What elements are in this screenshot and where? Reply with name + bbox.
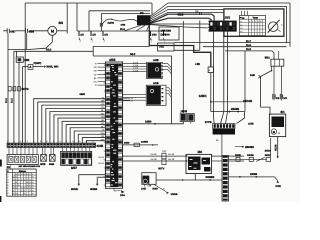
svg-text:D5/2B: D5/2B [98,162,104,165]
svg-text:A/3E: A/3E [248,122,254,125]
svg-text:31.0: 31.0 [120,28,126,31]
svg-text:31.7: 31.7 [246,40,252,43]
svg-text:12B/1: 12B/1 [199,94,207,98]
svg-text:D/7B: D/7B [276,185,282,188]
svg-text:0.5SB: 0.5SB [133,61,139,64]
svg-text:VD: VD [94,73,97,76]
svg-text:Tstat: Tstat [253,16,259,19]
svg-text:17/7B: 17/7B [205,121,212,124]
svg-text:5B/8: 5B/8 [80,93,86,96]
svg-text:1/3DB: 1/3DB [171,193,178,196]
svg-text:24/3C: 24/3C [265,149,272,152]
svg-text:GR: GR [101,103,105,106]
svg-text:2Q/4B: 2Q/4B [108,21,115,24]
svg-text:GN: GN [101,132,105,135]
svg-text:4/15B: 4/15B [274,144,277,151]
svg-text:4/56: 4/56 [109,58,116,62]
svg-text:D/70: D/70 [161,34,167,37]
svg-text:2B/4B: 2B/4B [231,107,239,111]
svg-text:54.0: 54.0 [46,49,52,52]
svg-text:D5T: D5T [162,150,167,153]
svg-text:a: a [252,21,253,23]
svg-text:2: 2 [15,154,16,157]
svg-text:1B2E: 1B2E [235,154,241,157]
svg-text:8: 8 [53,140,54,143]
svg-text:2: 2 [26,154,27,157]
svg-text:D34BB: D34BB [206,176,215,179]
svg-text:a: a [258,21,259,23]
svg-text:SH-3B: SH-3B [168,153,175,156]
svg-text:24B0: 24B0 [145,120,152,123]
svg-text:P(N/P): P(N/P) [34,62,42,65]
svg-text:5/4B: 5/4B [49,163,54,166]
svg-text:SH-3B: SH-3B [150,158,157,161]
svg-text:+3D: +3D [195,63,200,66]
svg-text:2: 2 [9,154,10,157]
svg-text:8: 8 [86,140,87,143]
svg-text:J8/1: J8/1 [225,16,231,20]
svg-text:23/4B: 23/4B [250,173,257,176]
svg-text:Status: Status [19,170,27,173]
svg-text:6/28: 6/28 [178,13,184,17]
svg-text:8: 8 [66,140,67,143]
svg-text:31.5: 31.5 [11,98,14,103]
svg-text:2: 2 [20,154,21,157]
svg-text:1/4B: 1/4B [121,23,126,26]
svg-text:R/4D: R/4D [153,187,159,190]
svg-text:GR: GR [101,138,105,141]
svg-text:M8: M8 [198,150,203,154]
svg-text:24/8: 24/8 [250,74,255,77]
svg-text:GN: GN [101,112,105,115]
svg-text:GN: GN [93,81,97,84]
svg-text:8: 8 [33,140,34,143]
svg-text:1: 1 [151,41,152,44]
svg-text:0.5SB: 0.5SB [133,67,139,70]
svg-text:L5B: L5B [148,184,152,187]
svg-text:L/4D: L/4D [141,187,146,190]
svg-text:0.5SB: 0.5SB [133,69,139,72]
svg-text:6/2: 6/2 [140,12,144,15]
svg-text:8: 8 [73,140,74,143]
svg-text:31.5: 31.5 [5,98,8,103]
svg-text:2: 2 [32,154,33,157]
svg-text:8: 8 [27,140,28,143]
svg-text:8: 8 [40,140,41,143]
svg-text:8: 8 [46,140,47,143]
svg-text:M: M [51,29,54,33]
svg-text:8: 8 [14,140,15,143]
svg-text:8: 8 [92,140,93,143]
svg-text:SH-3B: SH-3B [150,153,157,156]
svg-text:8/57: 8/57 [71,166,77,170]
svg-text:10B: 10B [24,58,29,62]
svg-text:34BD: 34BD [124,142,130,145]
svg-text:WTV: WTV [158,167,164,171]
svg-text:A4B: A4B [153,58,159,62]
svg-text:GR: GR [93,66,97,69]
svg-text:1: 1 [104,41,105,44]
svg-text:1/34: 1/34 [120,194,125,197]
svg-text:8/1: 8/1 [281,110,286,114]
svg-text:D4/3E: D4/3E [247,154,254,157]
svg-text:a: a [260,21,261,23]
svg-text:6/87: 6/87 [10,29,16,33]
svg-text:a: a [255,21,256,23]
svg-text:8: 8 [60,140,61,143]
svg-text:SH-3B: SH-3B [168,158,175,161]
svg-text:8B1: 8B1 [265,56,271,60]
svg-text:VD: VD [101,106,104,109]
svg-text:124BB: 124BB [141,141,148,144]
svg-text:34.0: 34.0 [130,53,136,56]
svg-text:1/63: 1/63 [152,33,157,36]
svg-text:6/88: 6/88 [29,29,35,33]
svg-text:VD: VD [101,116,104,119]
svg-text:WH5, WH: WH5, WH [46,66,58,69]
svg-text:5/2B: 5/2B [40,163,45,166]
svg-text:4/1BB: 4/1BB [90,188,97,191]
svg-text:6/8: 6/8 [59,21,64,25]
svg-text:1: 1 [80,41,81,44]
svg-text:6/2B: 6/2B [97,144,104,148]
svg-text:D5/2B: D5/2B [98,156,104,159]
svg-text:1/35 D23: 1/35 D23 [161,30,172,33]
svg-text:8: 8 [7,140,8,143]
svg-text:0.5SB: 0.5SB [133,64,139,67]
svg-text:8: 8 [79,140,80,143]
svg-text:73/1: 73/1 [159,46,165,49]
svg-text:31.5: 31.5 [246,44,252,47]
svg-text:25/1B: 25/1B [71,188,78,191]
svg-text:a: a [249,21,250,23]
svg-text:31.5: 31.5 [246,48,252,51]
svg-text:GR: GR [101,122,105,125]
svg-text:1: 1 [92,41,93,44]
svg-text:24/10E: 24/10E [243,99,252,103]
svg-text:1/5: 1/5 [131,100,134,103]
svg-text:1/5: 1/5 [131,97,134,100]
svg-text:1B/46: 1B/46 [181,110,188,113]
svg-text:2B/4E3: 2B/4E3 [245,146,254,149]
svg-text:A1B: A1B [153,81,159,85]
svg-text:8: 8 [20,140,21,143]
svg-text:5H73: 5H73 [22,87,29,91]
svg-text:Prog: Prog [240,16,245,19]
